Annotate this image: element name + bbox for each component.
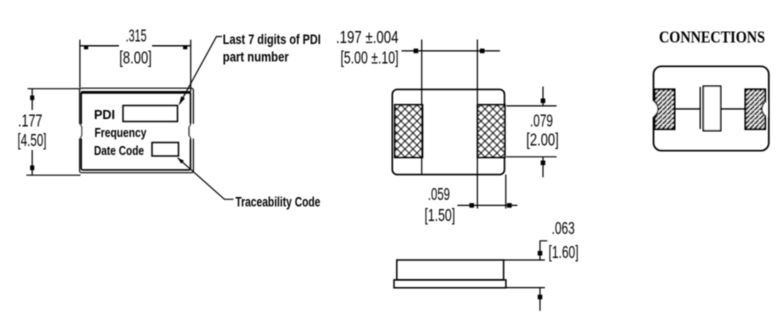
left solder pad (crosshatched): [395, 105, 423, 158]
package outline inner: [81, 92, 190, 170]
svg-text:Last 7 digits of PDI: Last 7 digits of PDI: [223, 31, 321, 47]
part number box: [123, 106, 178, 122]
package thick top edge: [81, 91, 190, 94]
dimension .079 line segments: [542, 87, 544, 178]
date code box: [152, 143, 179, 157]
connections body outline: [654, 66, 769, 150]
dimension .197 square terminator left: [414, 49, 419, 54]
dimension .315 line: [80, 45, 191, 47]
wire crystal to right pad: [721, 108, 747, 110]
svg-text:.177: .177: [18, 111, 42, 131]
dimension .063 square terminator bottom: [538, 295, 543, 300]
dimension .059 square terminator left: [469, 203, 474, 208]
right solder pad (crosshatched): [478, 105, 505, 158]
svg-text:[2.00]: [2.00]: [526, 130, 558, 150]
dimension .177 extension line bottom: [26, 174, 80, 176]
dimension .063 square terminator top: [538, 251, 543, 256]
svg-text:.063: .063: [552, 218, 575, 238]
dimension .177 square terminator top: [30, 96, 34, 101]
dimension .315 square terminator left: [84, 46, 88, 49]
body outline: [392, 89, 504, 174]
svg-text:[1.60]: [1.60]: [549, 242, 579, 262]
svg-text:[8.00]: [8.00]: [119, 48, 152, 68]
side view upper body: [397, 260, 504, 280]
dimension .197 square terminator right: [480, 49, 485, 54]
svg-text:.079: .079: [530, 111, 553, 131]
right terminal pad (hatched): [745, 89, 765, 129]
dimension .177 line: [31, 89, 33, 175]
svg-text:Date Code: Date Code: [94, 143, 144, 158]
dimension .059 square terminator right: [507, 203, 512, 208]
svg-text:Frequency: Frequency: [95, 125, 148, 140]
dimension .315 extension line right: [190, 40, 192, 92]
package notch left edge: [78, 125, 83, 139]
svg-text:[4.50]: [4.50]: [18, 130, 47, 150]
leader arrow to date code box: [178, 158, 184, 164]
dimension .063 lower segment: [539, 288, 541, 311]
side view base plate: [394, 280, 506, 288]
extension line right x=477.4: [476, 40, 478, 209]
dimension .197 line: [402, 50, 501, 52]
svg-text:.197 ±.004: .197 ±.004: [336, 27, 399, 47]
left terminal notch: [653, 101, 659, 116]
crystal plate line: [699, 87, 701, 129]
svg-text:PDI: PDI: [94, 107, 115, 122]
dimension .063 upper segment with tick: [540, 241, 547, 260]
svg-text:CONNECTIONS: CONNECTIONS: [659, 28, 765, 47]
wire left pad to crystal: [675, 108, 701, 110]
dimension .177 extension line top: [28, 88, 80, 90]
leader arrow to part number box: [179, 96, 185, 105]
leader line to traceability code box: [178, 158, 234, 200]
dimension .063 extension line bottom: [506, 287, 545, 289]
svg-text:part number: part number: [223, 49, 289, 65]
dimension .177 square terminator bottom: [30, 165, 34, 170]
svg-text:[5.00 ±.10]: [5.00 ±.10]: [341, 48, 399, 68]
dimension .079 extension line bottom: [506, 156, 556, 158]
svg-text:[1.50]: [1.50]: [425, 205, 456, 225]
dimension .059 line: [457, 204, 517, 206]
extension line left x=421.7: [421, 40, 423, 175]
extension line body right edge x=505.8: [505, 175, 507, 209]
dimension .079 square terminator top: [541, 99, 546, 104]
dimension .079 extension line top: [506, 105, 556, 107]
crystal element body: [703, 86, 720, 131]
right terminal notch: [762, 101, 768, 116]
dimension .315 square terminator right: [183, 46, 187, 49]
dimension .063 extension line top: [504, 259, 545, 261]
package outline outer: [80, 88, 194, 173]
left terminal pad (hatched): [655, 89, 675, 129]
dimension .315 extension line left: [79, 40, 81, 88]
svg-text:.315: .315: [126, 25, 147, 45]
package notch right edge: [189, 124, 195, 138]
leader line to part number box: [180, 37, 223, 105]
dimension .079 square terminator bottom: [541, 161, 546, 166]
svg-text:.059: .059: [428, 184, 450, 204]
svg-text:Traceability Code: Traceability Code: [235, 194, 320, 210]
